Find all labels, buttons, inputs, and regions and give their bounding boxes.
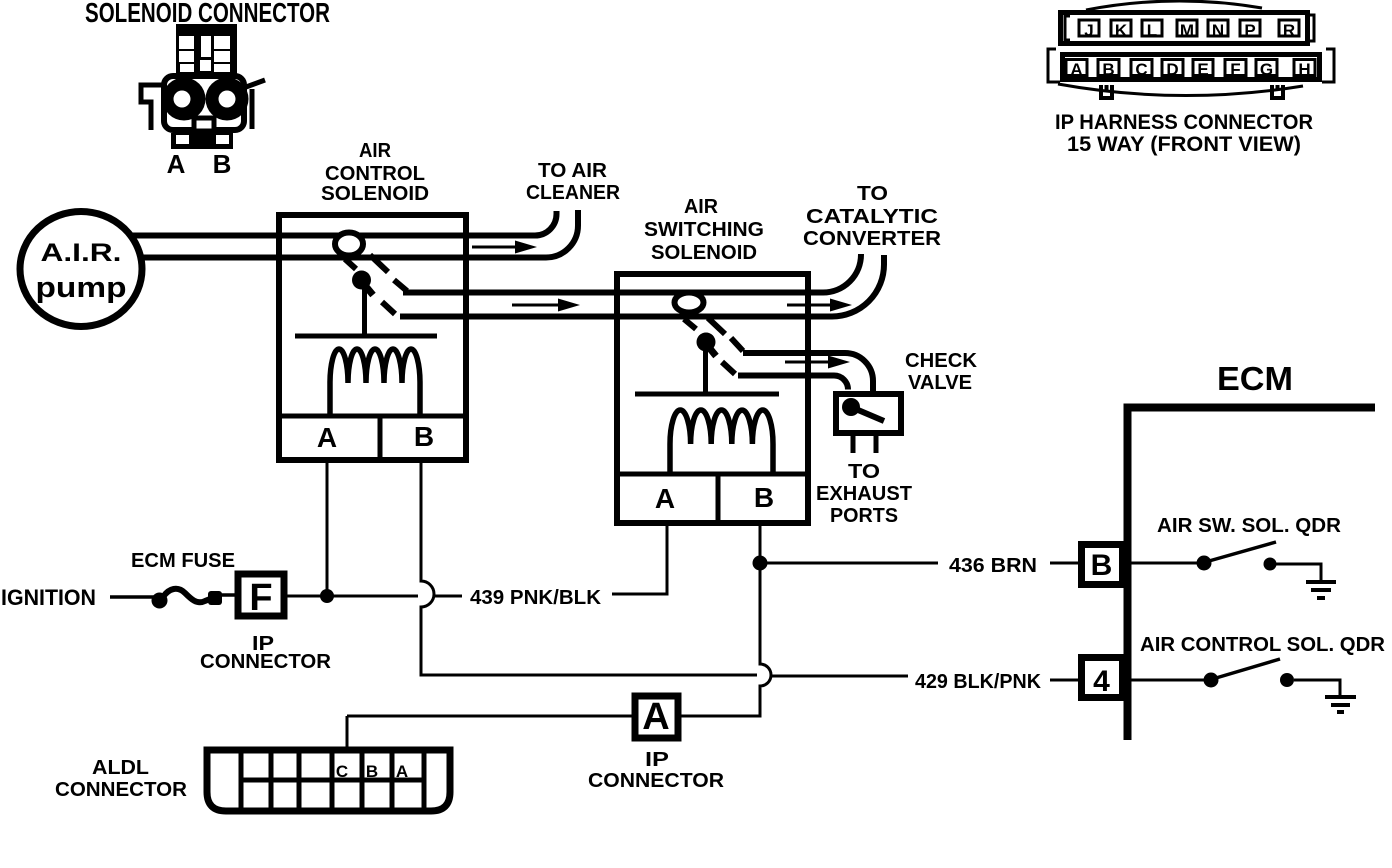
svg-text:15 WAY (FRONT VIEW): 15 WAY (FRONT VIEW)	[1067, 133, 1301, 156]
air switching solenoid box	[617, 274, 808, 523]
IGNITION feed wire	[110, 595, 154, 599]
switching solenoid valve dashed passage (upper)	[708, 318, 743, 351]
svg-text:CHECK: CHECK	[905, 350, 978, 372]
A.I.R. pump circle	[20, 212, 142, 327]
pipe from A.I.R. pump to air control solenoid (top line) and bend to air cleaner	[110, 211, 557, 236]
switching solenoid coil	[670, 410, 773, 473]
svg-text:B: B	[213, 149, 232, 179]
check valve flap	[851, 407, 884, 421]
wire 439 from label to switching solenoid terminal A	[612, 525, 667, 594]
svg-text:AIR: AIR	[359, 140, 392, 162]
switching solenoid valve circle	[675, 293, 704, 313]
svg-text:SOLENOID: SOLENOID	[321, 183, 429, 205]
svg-text:G: G	[1260, 60, 1273, 79]
svg-text:D: D	[1166, 60, 1178, 79]
svg-text:TO: TO	[857, 183, 888, 205]
switching solenoid armature stem	[707, 345, 716, 356]
switching solenoid terminal row divider	[614, 472, 810, 477]
svg-text:A.I.R.: A.I.R.	[41, 239, 122, 267]
wire from ECM pin B to driver switch	[1125, 562, 1197, 565]
svg-text:429 BLK/PNK: 429 BLK/PNK	[915, 671, 1042, 693]
IP harness pin C	[1131, 60, 1152, 76]
solenoid connector bottom rail	[171, 133, 233, 149]
svg-text:C: C	[1135, 60, 1147, 79]
air control solenoid box	[279, 215, 466, 460]
svg-text:B: B	[1091, 549, 1113, 582]
check valve box	[836, 394, 901, 433]
svg-text:ECM: ECM	[1217, 360, 1293, 397]
svg-text:IP: IP	[645, 749, 669, 771]
svg-text:B: B	[366, 762, 378, 781]
svg-text:A: A	[1070, 60, 1082, 79]
svg-text:ALDL: ALDL	[92, 757, 149, 779]
control solenoid valve dashed passage (upper)	[370, 255, 407, 291]
control solenoid valve circle	[335, 233, 363, 256]
wire 429 dash from label to ECM pin 4	[1050, 679, 1078, 682]
svg-text:H: H	[1298, 60, 1310, 79]
wire from control solenoid terminal B down with hop over 439 wire then to 429 run	[421, 463, 757, 675]
svg-text:A: A	[642, 696, 669, 738]
ECM pin 4 box	[1082, 658, 1123, 698]
svg-text:IP HARNESS CONNECTOR: IP HARNESS CONNECTOR	[1055, 111, 1313, 134]
pipe stub to check valve (lower line)	[738, 376, 848, 390]
svg-text:P: P	[1244, 21, 1255, 40]
solenoid connector eye B	[206, 78, 249, 121]
svg-text:SOLENOID: SOLENOID	[651, 242, 757, 264]
IP harness pin P	[1240, 20, 1260, 36]
svg-text:TO: TO	[848, 461, 880, 483]
junction dot on 436 wire	[753, 556, 768, 571]
IP harness pin K	[1111, 20, 1131, 36]
air control sol driver switch contact dot left	[1204, 673, 1219, 688]
pipe from A.I.R. pump (bottom line) and outer bend to air cleaner	[110, 210, 578, 258]
IP harness pin G	[1256, 60, 1277, 76]
svg-text:M: M	[1180, 21, 1194, 40]
solenoid connector body	[164, 76, 244, 130]
IP harness pin L	[1142, 20, 1162, 36]
svg-text:C: C	[336, 762, 348, 781]
svg-text:E: E	[1197, 60, 1208, 79]
solenoid connector right flange	[246, 80, 265, 129]
svg-text:EXHAUST: EXHAUST	[816, 483, 912, 505]
svg-text:CONTROL: CONTROL	[325, 163, 425, 185]
svg-text:SOLENOID CONNECTOR: SOLENOID CONNECTOR	[85, 0, 330, 28]
ALDL connector cell dividers	[241, 751, 424, 809]
svg-text:ECM FUSE: ECM FUSE	[131, 550, 235, 572]
wire 439 resumes right of hop	[434, 595, 462, 598]
svg-text:B: B	[1102, 60, 1114, 79]
ECM outline vertical	[1124, 404, 1132, 740]
svg-text:A: A	[655, 483, 675, 514]
air control solenoid terminal row divider	[276, 414, 469, 419]
IP harness connector bottom lens arc	[1058, 84, 1303, 96]
IP harness connector top row shell	[1061, 13, 1308, 44]
IP harness pin E	[1193, 60, 1213, 76]
svg-text:K: K	[1115, 21, 1128, 40]
solenoid connector tower	[176, 24, 237, 74]
svg-text:B: B	[754, 482, 774, 513]
check valve pivot dot	[842, 398, 860, 416]
svg-text:AIR CONTROL SOL. QDR: AIR CONTROL SOL. QDR	[1140, 634, 1386, 656]
svg-text:N: N	[1212, 21, 1224, 40]
svg-text:AIR: AIR	[684, 196, 719, 218]
IP harness pin H	[1294, 60, 1315, 76]
wire from ALDL to IP connector A	[347, 716, 632, 748]
wire continues down with hop over 429 wire then left to IP connector A	[681, 563, 771, 716]
wire from switching solenoid terminal B down to junction	[759, 525, 762, 556]
ECM pin B box	[1082, 545, 1123, 585]
wire from switch to ground	[1294, 680, 1340, 696]
IP harness pin D	[1162, 60, 1183, 76]
solenoid connector eye A	[163, 78, 206, 121]
flow arrow in pipe to check valve	[785, 361, 829, 364]
control solenoid pivot dot	[352, 271, 371, 290]
flow arrow inside pipe to air cleaner	[472, 246, 516, 249]
ECM fuse (fusible link squiggle)	[152, 593, 168, 609]
svg-text:CONVERTER: CONVERTER	[803, 228, 942, 250]
svg-text:A: A	[317, 422, 337, 453]
svg-text:SWITCHING: SWITCHING	[644, 219, 764, 241]
wire 436 dash from label to ECM pin B	[1050, 562, 1078, 565]
IP connector A box	[635, 696, 678, 738]
IP harness pin M	[1177, 20, 1197, 36]
air control sol driver switch blade	[1216, 659, 1280, 678]
IP harness pin A	[1066, 60, 1087, 76]
IP harness mounting tabs	[1101, 85, 1112, 98]
svg-text:A: A	[396, 762, 408, 781]
svg-text:F: F	[1230, 60, 1240, 79]
svg-text:CATALYTIC: CATALYTIC	[806, 206, 938, 228]
svg-text:A: A	[167, 149, 186, 179]
control solenoid armature bar	[295, 334, 437, 339]
svg-text:IGNITION: IGNITION	[1, 585, 96, 610]
pipe to catalytic converter (bottom line)	[400, 255, 884, 317]
svg-text:CONNECTOR: CONNECTOR	[55, 779, 188, 801]
svg-text:J: J	[1084, 21, 1093, 40]
IP harness connector bottom row shell	[1063, 55, 1320, 80]
check valve legs	[853, 436, 876, 453]
svg-text:PORTS: PORTS	[830, 505, 898, 527]
control solenoid valve dashed passage (lower)	[345, 259, 395, 314]
solenoid connector left flange	[141, 85, 162, 130]
pipe stub from switching solenoid to check valve (upper line)	[743, 353, 873, 392]
IP harness pin R	[1279, 20, 1299, 36]
wire 439 from F box to hop	[287, 595, 418, 598]
wire 429 resumes right of hop	[771, 675, 908, 678]
svg-text:F: F	[249, 577, 272, 619]
solenoid connector bottom notch	[194, 118, 214, 131]
ECM outline horizontal	[1124, 404, 1376, 412]
switching solenoid pivot dot	[697, 333, 716, 352]
junction dot at control solenoid A wire	[320, 589, 334, 603]
wire 436 from junction to label	[767, 562, 938, 565]
svg-text:L: L	[1147, 21, 1157, 40]
air control sol driver switch contact dot right	[1280, 673, 1294, 687]
ground symbol (air sw sol driver)	[1306, 582, 1336, 598]
wire from ECM pin 4 to driver switch	[1125, 679, 1204, 682]
ALDL connector body	[207, 750, 450, 811]
pipe from air control solenoid to air switching solenoid and bend to catalytic converter (top line)	[403, 254, 861, 293]
wire from control solenoid terminal A down to 439 wire	[326, 463, 329, 596]
flow arrow in pipe between solenoids	[512, 304, 559, 307]
svg-text:439 PNK/BLK: 439 PNK/BLK	[470, 587, 602, 609]
ground symbol (air control sol driver)	[1325, 697, 1356, 712]
wire from switch to ground	[1276, 564, 1321, 581]
IP harness pin J	[1079, 20, 1099, 36]
flow arrow in pipe to catalytic converter	[787, 304, 831, 307]
svg-text:AIR SW. SOL. QDR: AIR SW. SOL. QDR	[1157, 515, 1342, 537]
svg-text:VALVE: VALVE	[908, 372, 972, 394]
switching solenoid valve dashed passage (lower)	[684, 319, 735, 374]
IP connector F box	[238, 574, 284, 616]
IP harness connector top lens arc	[1086, 1, 1262, 10]
svg-text:R: R	[1283, 21, 1295, 40]
svg-text:CLEANER: CLEANER	[526, 182, 621, 204]
svg-text:pump: pump	[36, 272, 127, 304]
svg-text:4: 4	[1093, 665, 1110, 698]
svg-text:TO AIR: TO AIR	[538, 160, 608, 182]
air sw sol driver switch contact dot left	[1197, 556, 1212, 571]
IP harness pin N	[1208, 20, 1228, 36]
control solenoid armature stem	[363, 283, 373, 295]
air sw sol driver switch contact dot right	[1264, 558, 1277, 571]
svg-text:436 BRN: 436 BRN	[949, 555, 1037, 577]
switching solenoid armature bar	[635, 392, 779, 397]
svg-text:B: B	[414, 421, 434, 452]
control solenoid coil	[330, 349, 420, 414]
IP harness pin F	[1225, 60, 1246, 76]
svg-text:CONNECTOR: CONNECTOR	[200, 651, 332, 673]
air sw sol driver switch blade	[1209, 542, 1276, 561]
svg-text:CONNECTOR: CONNECTOR	[588, 770, 725, 792]
IP harness pin B	[1098, 60, 1119, 76]
